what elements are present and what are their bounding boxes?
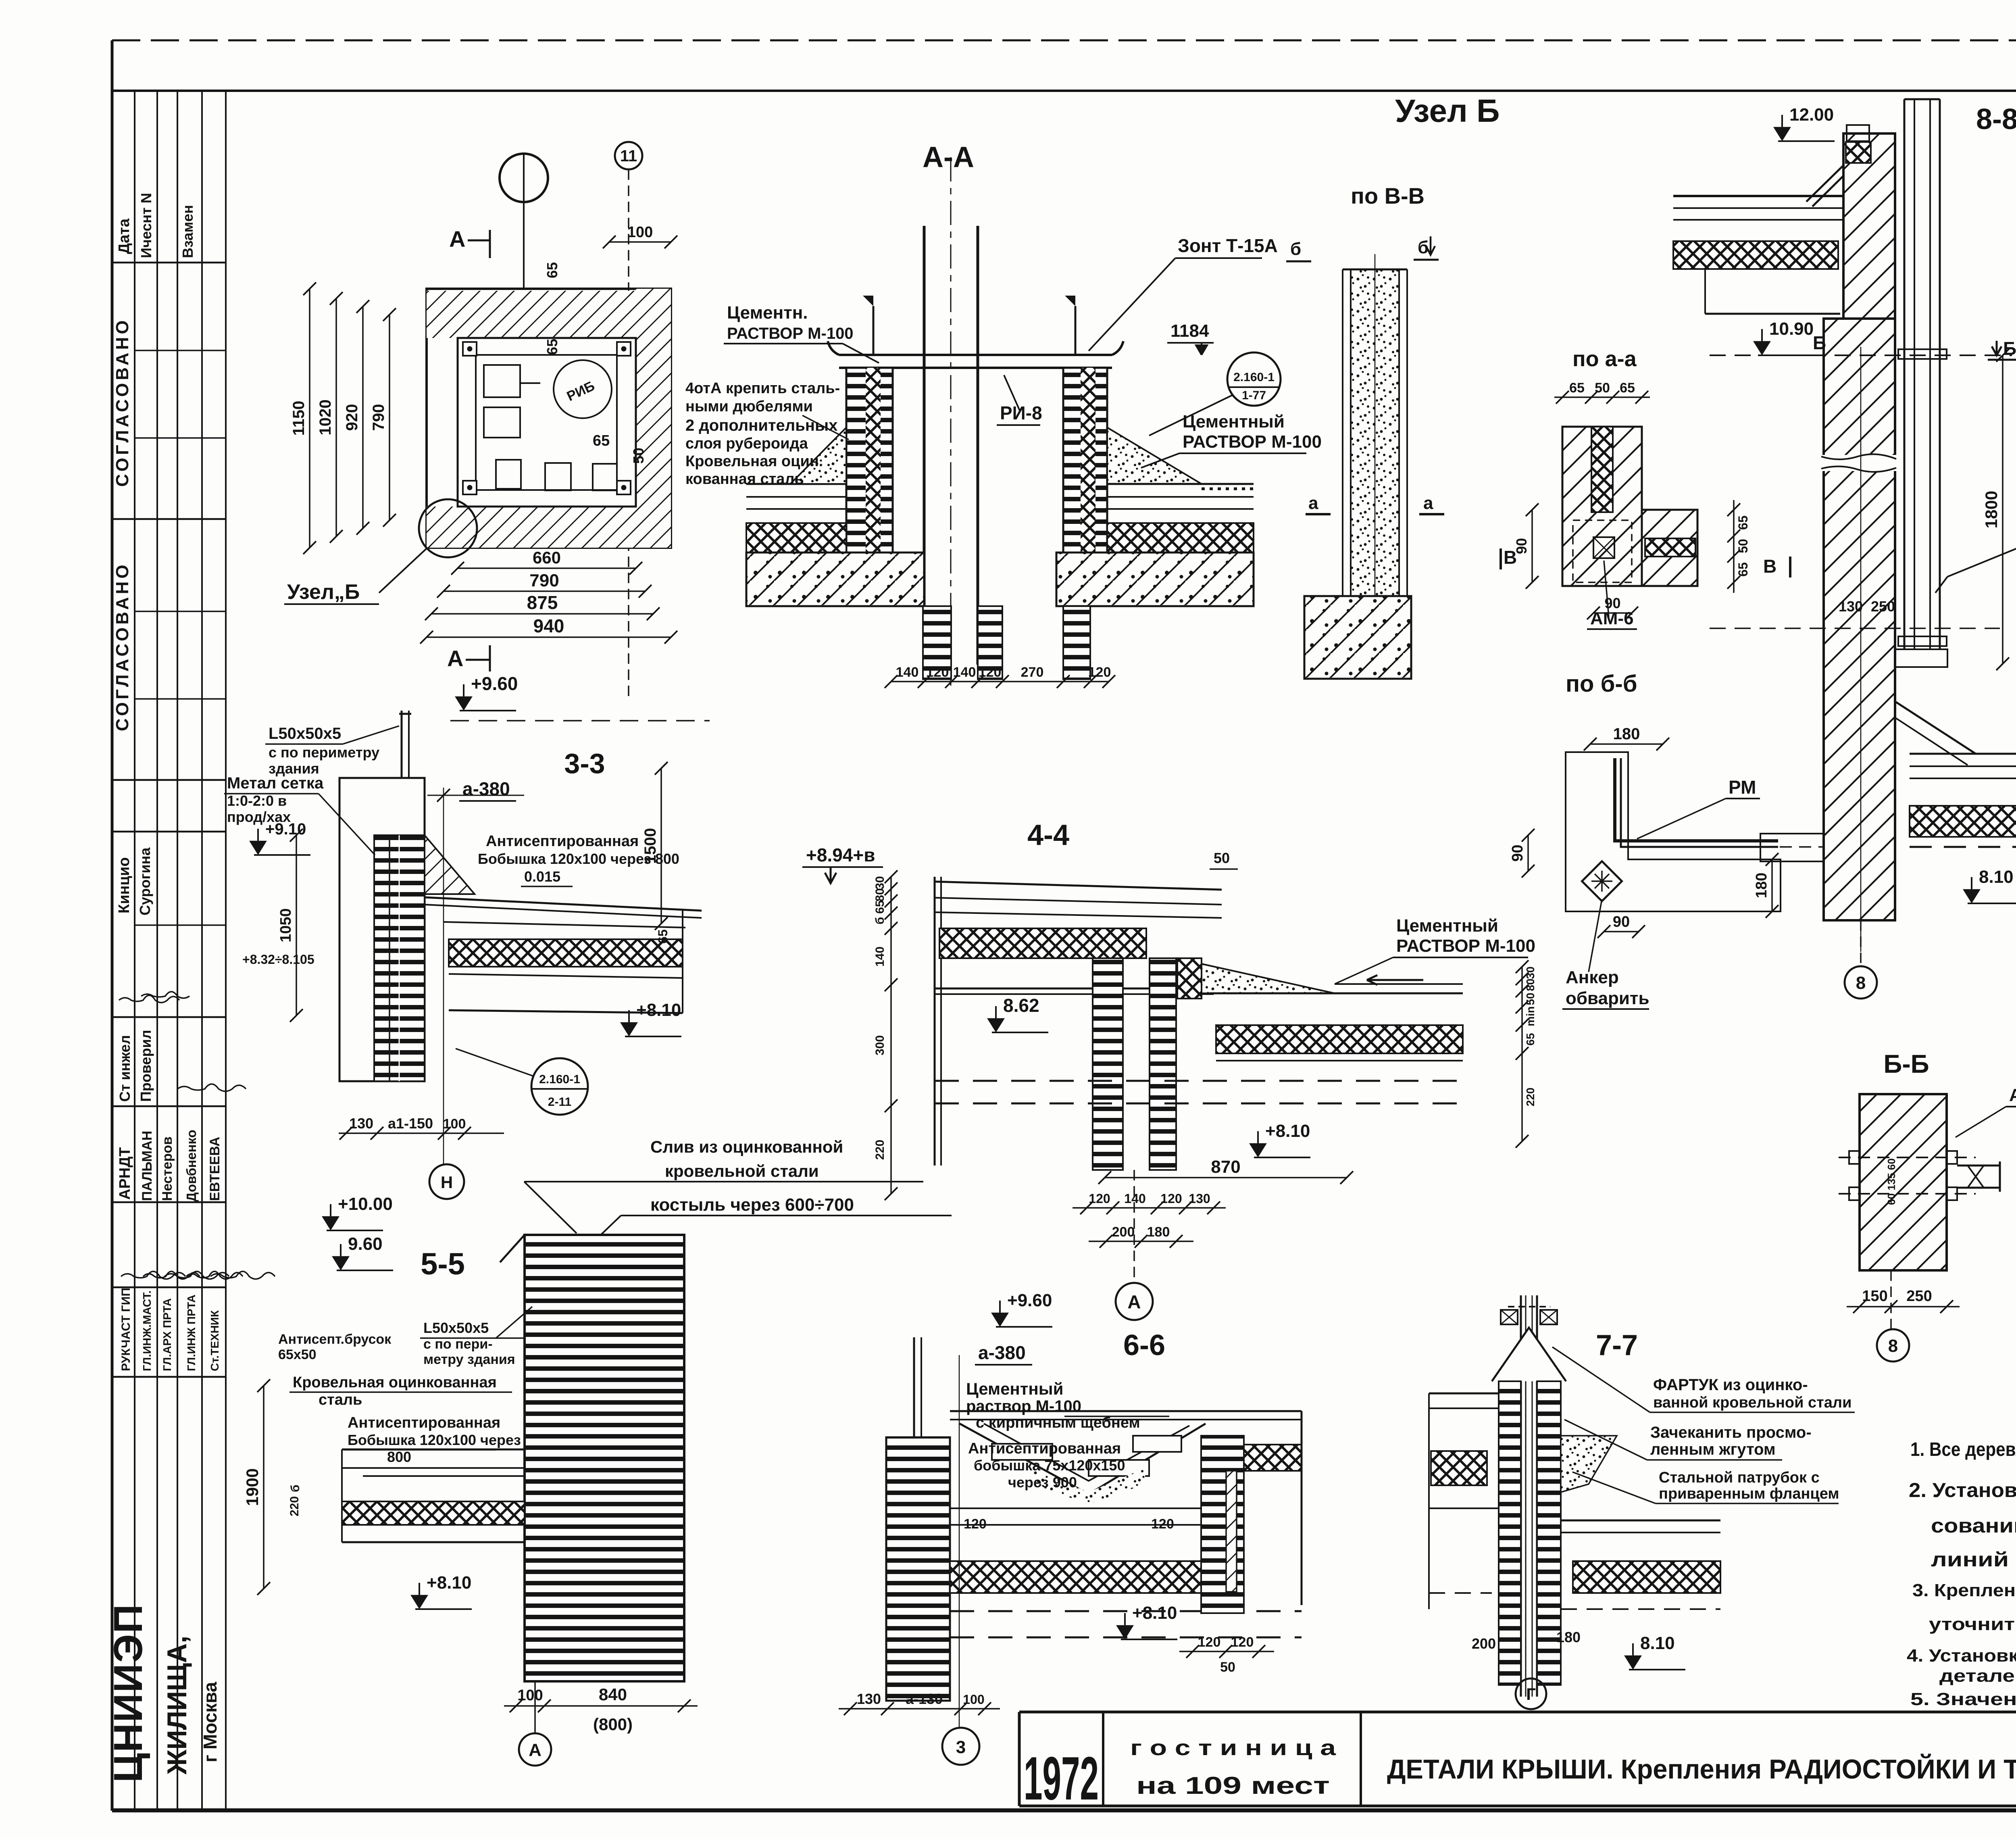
svg-text:0.015: 0.015 [524, 868, 560, 885]
svg-text:65: 65 [593, 432, 610, 449]
svg-text:1:0-2:0 в: 1:0-2:0 в [227, 792, 287, 809]
svg-text:а-380: а-380 [462, 778, 510, 799]
svg-text:100: 100 [517, 1687, 543, 1704]
svg-text:а1-150: а1-150 [388, 1115, 433, 1132]
svg-text:Кровельная оцин.: Кровельная оцин. [685, 453, 823, 470]
svg-text:870: 870 [1211, 1157, 1240, 1177]
svg-text:Сурогина: Сурогина [137, 847, 153, 915]
svg-text:АИ-5: АИ-5 [2009, 1085, 2016, 1105]
svg-text:В: В [1763, 556, 1776, 577]
svg-text:Кинцио: Кинцио [116, 857, 133, 913]
svg-text:Анкер: Анкер [1566, 967, 1619, 987]
svg-text:линий и назначения стоек.: линий и назначения стоек. [1931, 1548, 2016, 1571]
svg-text:80: 80 [873, 888, 887, 901]
svg-text:50: 50 [630, 448, 647, 464]
svg-text:100: 100 [443, 1116, 466, 1132]
svg-text:Нестеров: Нестеров [160, 1136, 175, 1201]
svg-text:РАСТВОР М-100: РАСТВОР М-100 [1396, 936, 1535, 956]
svg-text:бобышка 75х120х150: бобышка 75х120х150 [974, 1457, 1125, 1474]
svg-text:АРНДТ: АРНДТ [117, 1147, 133, 1200]
svg-text:840: 840 [599, 1685, 627, 1704]
svg-text:СОГЛАСОВАНО: СОГЛАСОВАНО [112, 317, 132, 487]
svg-text:ГЛ.АРХ ПРТА: ГЛ.АРХ ПРТА [161, 1298, 173, 1371]
svg-text:б: б [289, 1485, 302, 1492]
svg-text:РУКЧАСТ ГИП: РУКЧАСТ ГИП [119, 1288, 133, 1371]
svg-text:8.10: 8.10 [1640, 1633, 1675, 1653]
svg-text:ными дюбелями: ными дюбелями [685, 398, 813, 415]
svg-text:А-А: А-А [923, 141, 974, 173]
svg-text:+9.10: +9.10 [265, 820, 306, 838]
svg-text:ГЛ.ИНЖ ПРТА: ГЛ.ИНЖ ПРТА [185, 1295, 198, 1371]
svg-text:Взамен: Взамен [179, 205, 196, 258]
svg-text:Проверил: Проверил [137, 1030, 154, 1102]
svg-text:б: б [873, 917, 887, 925]
svg-text:Ст.ТЕХНИК: Ст.ТЕХНИК [208, 1310, 221, 1371]
svg-text:б: б [1290, 239, 1301, 259]
svg-text:2 дополнительных: 2 дополнительных [685, 417, 837, 434]
svg-text:+8.10: +8.10 [636, 1000, 681, 1020]
svg-text:а: а [1308, 493, 1318, 513]
svg-text:АМ-6: АМ-6 [1590, 609, 1634, 628]
svg-text:180: 180 [1556, 1629, 1581, 1645]
svg-text:3. Крепление гильзы для радиос: 3. Крепление гильзы для радиостойки и оп… [1912, 1580, 2016, 1600]
svg-text:90: 90 [1509, 844, 1526, 861]
svg-text:на 109 мест: на 109 мест [1136, 1772, 1330, 1799]
svg-text:1150: 1150 [290, 401, 308, 436]
svg-text:а-130: а-130 [906, 1691, 943, 1707]
svg-text:2.160-1: 2.160-1 [539, 1073, 580, 1086]
svg-text:220: 220 [288, 1496, 301, 1516]
svg-text:120: 120 [1151, 1516, 1174, 1532]
svg-text:140: 140 [896, 665, 919, 680]
svg-text:180: 180 [1613, 725, 1640, 743]
svg-text:130: 130 [349, 1115, 373, 1132]
svg-text:А: А [449, 226, 465, 252]
svg-text:1. Все деревянные Бруски и Бо: 1. Все деревянные Бруски и Бобышки антис… [1910, 1439, 2016, 1460]
svg-text:30: 30 [873, 876, 887, 889]
svg-text:3: 3 [956, 1737, 966, 1757]
svg-text:200: 200 [1472, 1635, 1496, 1652]
svg-text:4. Установка воронки ВР-7и вну: 4. Установка воронки ВР-7и внутреннего в… [1907, 1646, 2016, 1666]
svg-text:деталей 2160-1, выпуск 1.: деталей 2160-1, выпуск 1. [1939, 1666, 2016, 1686]
svg-text:2. Установка радио и телестоек: 2. Установка радио и телестоек осуществл… [1909, 1479, 2016, 1501]
svg-text:65: 65 [656, 929, 670, 944]
svg-text:Цементн.: Цементн. [727, 303, 808, 323]
svg-text:(800): (800) [593, 1715, 633, 1734]
svg-text:Антисепт.брусок: Антисепт.брусок [278, 1332, 392, 1347]
svg-text:Зонт Т-15А: Зонт Т-15А [1178, 235, 1278, 256]
svg-text:+8.32÷8.105: +8.32÷8.105 [242, 952, 314, 967]
svg-text:ПАЛЬМАН: ПАЛЬМАН [140, 1131, 155, 1201]
svg-text:660: 660 [533, 548, 561, 567]
svg-text:Довбненко: Довбненко [184, 1130, 199, 1202]
svg-text:приваренным фланцем: приваренным фланцем [1659, 1485, 1839, 1502]
svg-text:50: 50 [1595, 380, 1610, 396]
svg-text:120: 120 [1198, 1635, 1221, 1650]
svg-text:Ичеснт N: Ичеснт N [138, 193, 154, 258]
svg-text:1500: 1500 [641, 828, 659, 864]
svg-text:Цементный: Цементный [1183, 412, 1285, 432]
svg-text:2-11: 2-11 [548, 1095, 571, 1109]
svg-text:Н: Н [441, 1173, 453, 1192]
svg-text:50: 50 [1736, 539, 1750, 553]
svg-text:250: 250 [1906, 1288, 1932, 1305]
svg-text:65х50: 65х50 [278, 1347, 317, 1362]
svg-text:130: 130 [857, 1691, 881, 1707]
svg-text:А: А [447, 646, 463, 671]
svg-text:1184: 1184 [1170, 321, 1209, 341]
svg-text:220: 220 [1524, 1088, 1537, 1107]
svg-text:ДЕТАЛИ КРЫШИ. Крепления РАДИОС: ДЕТАЛИ КРЫШИ. Крепления РАДИОСТОЙКИ И ТЕ… [1387, 1754, 2016, 1785]
svg-text:по В-В: по В-В [1351, 183, 1425, 209]
svg-text:по б-б: по б-б [1566, 671, 1637, 697]
svg-text:5-5: 5-5 [421, 1247, 465, 1281]
svg-text:1050: 1050 [277, 908, 294, 942]
svg-text:+8.10: +8.10 [1132, 1603, 1177, 1623]
svg-text:ЖИЛИЩА,: ЖИЛИЩА, [162, 1636, 192, 1775]
svg-text:+9.60: +9.60 [471, 673, 518, 694]
svg-text:В: В [1504, 547, 1517, 568]
svg-text:120: 120 [1089, 1191, 1110, 1206]
svg-text:+8.94+в: +8.94+в [806, 844, 875, 865]
svg-text:120: 120 [979, 665, 1002, 680]
svg-text:9.60: 9.60 [348, 1234, 383, 1254]
svg-text:8.10: 8.10 [1979, 867, 2014, 887]
svg-text:140: 140 [873, 947, 887, 967]
svg-text:кованная сталь: кованная сталь [685, 471, 804, 488]
svg-text:Стальной патрубок с: Стальной патрубок с [1659, 1469, 1820, 1486]
svg-text:Антисептированная: Антисептированная [486, 833, 639, 850]
svg-text:г Москва: г Москва [200, 1682, 221, 1762]
svg-text:Ст инжел: Ст инжел [117, 1035, 133, 1102]
svg-text:65: 65 [1569, 380, 1585, 396]
svg-text:50: 50 [1524, 992, 1537, 1005]
svg-text:Дата: Дата [116, 218, 133, 254]
svg-text:65: 65 [1736, 515, 1750, 530]
svg-text:7-7: 7-7 [1596, 1329, 1638, 1362]
svg-text:3-3: 3-3 [564, 748, 605, 779]
svg-text:220: 220 [873, 1140, 887, 1160]
svg-text:150: 150 [1862, 1288, 1887, 1305]
svg-text:8.62: 8.62 [1003, 995, 1039, 1016]
svg-text:с по периметру: с по периметру [269, 744, 379, 761]
svg-text:сталь: сталь [319, 1391, 362, 1408]
svg-text:790: 790 [529, 571, 559, 590]
svg-text:130: 130 [1839, 598, 1863, 615]
svg-text:1900: 1900 [243, 1468, 262, 1506]
svg-text:65: 65 [544, 262, 560, 278]
svg-text:обварить: обварить [1566, 988, 1649, 1008]
svg-text:ГЛ.ИНЖ.МАСТ.: ГЛ.ИНЖ.МАСТ. [141, 1291, 153, 1371]
svg-text:ленным жгутом: ленным жгутом [1650, 1441, 1776, 1458]
svg-text:65: 65 [544, 339, 560, 355]
svg-text:8: 8 [1888, 1336, 1898, 1356]
svg-text:г о с т и н и ц а: г о с т и н и ц а [1130, 1736, 1336, 1760]
svg-text:130: 130 [1189, 1191, 1210, 1206]
svg-text:12.00: 12.00 [1789, 105, 1834, 125]
svg-text:Б: Б [1813, 332, 1826, 353]
svg-text:180: 180 [1753, 873, 1770, 898]
svg-text:120: 120 [1231, 1635, 1254, 1650]
svg-text:120: 120 [1160, 1191, 1182, 1206]
svg-text:Узел„Б: Узел„Б [287, 580, 360, 604]
svg-text:раствор М-100: раствор М-100 [966, 1397, 1081, 1415]
svg-text:1-77: 1-77 [1242, 389, 1266, 402]
svg-text:60 135 60: 60 135 60 [1885, 1158, 1897, 1205]
svg-text:2.160-1: 2.160-1 [1233, 371, 1275, 384]
svg-text:1972: 1972 [1024, 1744, 1099, 1813]
svg-text:65: 65 [873, 900, 887, 913]
svg-text:ФАРТУК из оцинко-: ФАРТУК из оцинко- [1653, 1376, 1808, 1394]
svg-text:РАСТВОР М-100: РАСТВОР М-100 [727, 325, 854, 342]
svg-text:костыль через 600÷700: костыль через 600÷700 [650, 1195, 854, 1215]
svg-text:270: 270 [1021, 665, 1044, 680]
svg-text:50: 50 [1220, 1660, 1235, 1675]
svg-text:А: А [529, 1740, 541, 1760]
svg-text:10.90: 10.90 [1769, 319, 1814, 339]
svg-text:120: 120 [926, 665, 949, 680]
svg-text:сованию с местным узлом связи: сованию с местным узлом связи в зависимо… [1931, 1514, 2016, 1537]
svg-text:180: 180 [1147, 1224, 1170, 1240]
svg-text:метру здания: метру здания [423, 1352, 515, 1367]
svg-text:140: 140 [953, 665, 976, 680]
svg-text:100: 100 [963, 1692, 984, 1707]
svg-text:А: А [1127, 1291, 1141, 1312]
svg-text:8-8: 8-8 [1976, 103, 2016, 136]
svg-text:1800: 1800 [1982, 491, 2001, 528]
svg-text:Метал сетка: Метал сетка [227, 774, 324, 792]
svg-text:140: 140 [1124, 1191, 1145, 1206]
svg-text:65: 65 [1736, 562, 1750, 577]
svg-text:Цементный: Цементный [1396, 916, 1498, 936]
svg-text:790: 790 [370, 404, 387, 431]
svg-text:Антисептированная: Антисептированная [348, 1414, 500, 1431]
svg-text:250: 250 [1871, 598, 1895, 615]
svg-text:ЕВТЕЕВА: ЕВТЕЕВА [207, 1137, 223, 1201]
svg-text:90: 90 [1613, 913, 1630, 930]
svg-text:РИ-8: РИ-8 [1000, 402, 1042, 423]
svg-text:кровельной стали: кровельной стали [665, 1161, 819, 1180]
svg-text:Б-Б: Б-Б [1883, 1049, 1929, 1078]
svg-text:через 900: через 900 [1008, 1474, 1077, 1491]
svg-text:а-380: а-380 [978, 1342, 1026, 1363]
svg-text:Б: Б [2003, 338, 2016, 359]
svg-text:Узел Б: Узел Б [1395, 93, 1500, 129]
svg-text:+9.60: +9.60 [1007, 1291, 1052, 1310]
svg-text:ванной кровельной стали: ванной кровельной стали [1653, 1394, 1851, 1411]
svg-text:4отА крепить сталь-: 4отА крепить сталь- [685, 380, 840, 397]
svg-text:65: 65 [1524, 1033, 1537, 1045]
svg-text:8: 8 [1856, 973, 1866, 993]
svg-text:6-6: 6-6 [1123, 1329, 1165, 1362]
svg-text:100: 100 [627, 224, 653, 241]
svg-text:по а-а: по а-а [1572, 347, 1637, 371]
svg-text:+8.10: +8.10 [427, 1573, 471, 1593]
svg-text:50: 50 [1214, 850, 1230, 866]
svg-text:Г: Г [1526, 1685, 1536, 1703]
svg-text:слоя рубероида: слоя рубероида [685, 435, 808, 452]
svg-text:80: 80 [1524, 978, 1537, 991]
svg-text:Цементный: Цементный [966, 1379, 1063, 1398]
svg-text:300: 300 [873, 1035, 887, 1055]
svg-text:+10.00: +10.00 [338, 1194, 393, 1214]
svg-text:120: 120 [964, 1516, 987, 1532]
svg-text:L50х50х5: L50х50х5 [423, 1320, 489, 1336]
svg-text:920: 920 [343, 404, 361, 431]
svg-text:а: а [1423, 493, 1433, 513]
svg-text:Слив из оцинкованной: Слив из оцинкованной [650, 1137, 843, 1156]
svg-text:Кровельная оцинкованная: Кровельная оцинкованная [293, 1374, 497, 1391]
svg-text:11: 11 [620, 147, 637, 165]
svg-text:Антисептированная: Антисептированная [968, 1440, 1121, 1457]
svg-text:min: min [1524, 1006, 1537, 1026]
svg-text:5. Значение „а" см раздел 1.1-: 5. Значение „а" см раздел 1.1-1 лист 9. [1910, 1689, 2016, 1709]
svg-text:ЦНИИЭП: ЦНИИЭП [106, 1603, 151, 1783]
svg-text:875: 875 [527, 592, 558, 613]
svg-text:1020: 1020 [317, 400, 334, 436]
svg-text:РАСТВОР М-100: РАСТВОР М-100 [1183, 432, 1322, 452]
svg-text:РМ: РМ [1729, 777, 1756, 798]
svg-text:120: 120 [1088, 665, 1111, 680]
svg-text:65: 65 [1620, 380, 1635, 396]
svg-text:4-4: 4-4 [1027, 819, 1069, 851]
svg-text:200: 200 [1112, 1224, 1135, 1240]
svg-text:L50х50х5: L50х50х5 [269, 725, 341, 742]
svg-text:30: 30 [1524, 966, 1537, 979]
svg-text:Зачеканить просмо-: Зачеканить просмо- [1650, 1424, 1812, 1441]
svg-text:СОГЛАСОВАНО: СОГЛАСОВАНО [112, 562, 132, 731]
svg-text:Бобышка 120х100 через: Бобышка 120х100 через [348, 1432, 521, 1448]
svg-text:уточнить при привязке по факти: уточнить при привязке по фактическим наг… [1929, 1614, 2016, 1634]
svg-text:800: 800 [387, 1449, 411, 1465]
svg-text:+8.10: +8.10 [1265, 1121, 1310, 1141]
svg-text:940: 940 [533, 615, 564, 636]
